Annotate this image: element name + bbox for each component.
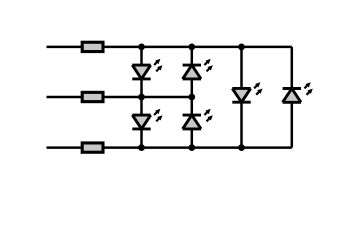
node B2 [188, 94, 195, 101]
wire column C vertical [240, 47, 243, 148]
node C3 [238, 144, 245, 151]
wire row 3 horizontal [47, 146, 292, 149]
resistor R3 [82, 143, 103, 152]
wire row 2 horizontal [47, 96, 192, 99]
node B1 [188, 44, 195, 51]
LED D6 [283, 82, 313, 102]
node A2 [138, 94, 145, 101]
resistor R1 [82, 42, 103, 51]
wire column B vertical [191, 47, 194, 148]
wire column A vertical [140, 47, 143, 148]
LED D3 [183, 59, 213, 79]
LED D1 [132, 59, 162, 79]
node B3 [188, 144, 195, 151]
resistor R2 [82, 92, 103, 101]
node A1 [138, 44, 145, 51]
LED D2 [132, 109, 162, 129]
LED D5 [232, 82, 262, 102]
wire row 1 horizontal [47, 46, 292, 49]
LED D4 [183, 109, 213, 129]
wire column D vertical [291, 47, 294, 148]
node C1 [238, 44, 245, 51]
node A3 [138, 144, 145, 151]
